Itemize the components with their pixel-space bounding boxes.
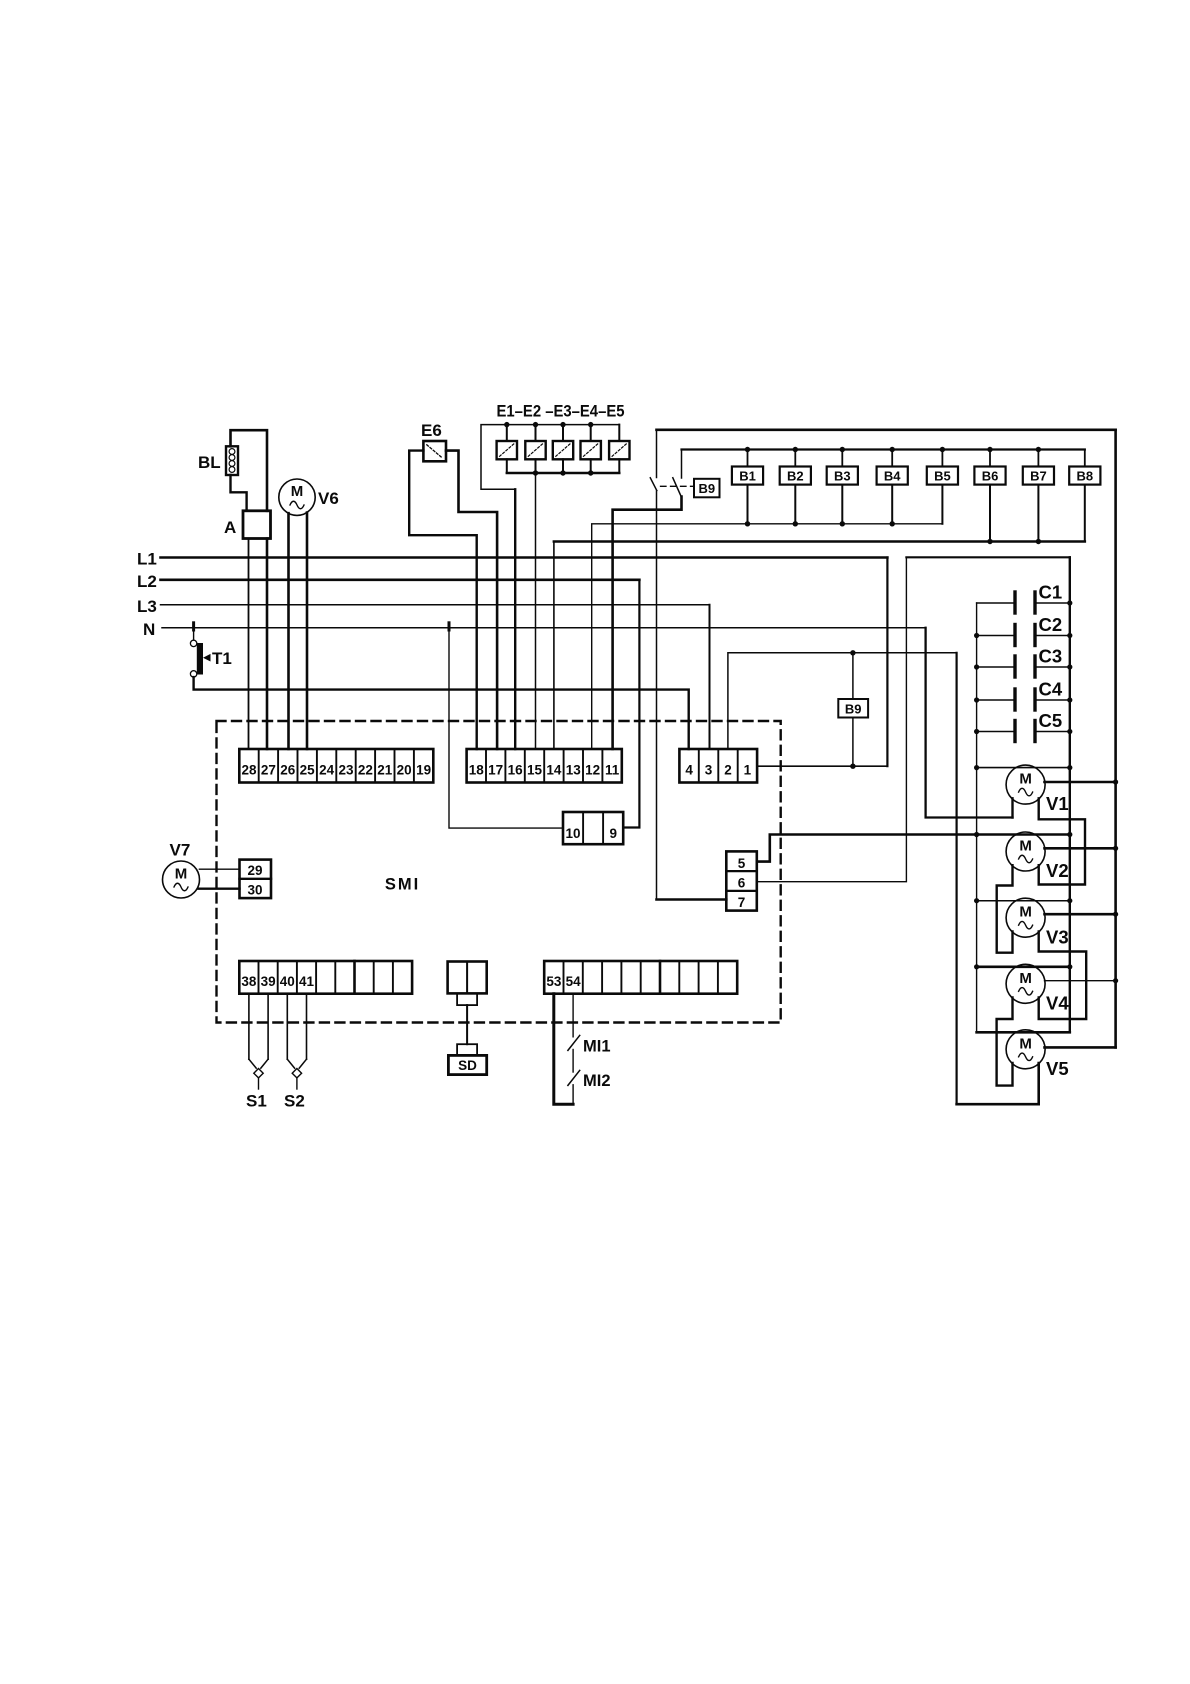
svg-text:B9: B9: [845, 701, 862, 716]
motor V7: [163, 861, 200, 898]
node B7 top bus: [1036, 447, 1041, 452]
node B3 lower bus: [840, 521, 845, 526]
wire B6-B8 bus to terminal 14: [554, 540, 1085, 543]
svg-text:19: 19: [416, 763, 431, 778]
node V2 right rail: [1113, 846, 1118, 851]
wire E3 top stub: [562, 425, 564, 441]
sensor B9 lower: [838, 699, 868, 718]
wire B1 top stub: [747, 450, 749, 467]
wire B bus top rail: [682, 448, 1085, 450]
svg-text:M: M: [1019, 771, 1032, 788]
svg-text:E1–E2 –E3–E4–E5: E1–E2 –E3–E4–E5: [497, 402, 625, 421]
wire L3: [161, 604, 710, 606]
svg-text:A: A: [224, 518, 236, 537]
sensor SD: [448, 1055, 486, 1074]
plug upper SD: [457, 993, 477, 1005]
node E3 top: [560, 422, 565, 427]
svg-text:4: 4: [685, 763, 693, 778]
motor V2: [1006, 832, 1045, 871]
wire B8 top stub: [1084, 450, 1086, 467]
terminal block terminals 38-41: [239, 961, 412, 994]
relay A: [243, 511, 271, 539]
wire terminal 41 down: [306, 994, 308, 1059]
svg-text:M: M: [291, 483, 304, 500]
svg-text:V3: V3: [1046, 926, 1069, 947]
wire capacitor right bus: [1069, 557, 1071, 1032]
sensor B7: [1023, 467, 1054, 485]
wire V6 to terminal 26: [287, 513, 290, 749]
wire BL bottom to A: [231, 475, 247, 511]
svg-text:14: 14: [546, 763, 562, 778]
connector block above SD: [448, 962, 487, 994]
svg-text:21: 21: [377, 763, 393, 778]
svg-text:S1: S1: [246, 1092, 267, 1111]
wire terminal 38 down: [248, 994, 250, 1059]
wire outer right rail: [1114, 430, 1117, 1048]
svg-text:1: 1: [744, 763, 752, 778]
wire E2 bottom stub: [535, 459, 537, 473]
wire B4 top stub: [891, 450, 893, 467]
node V2 rail left: [974, 832, 979, 837]
wire terminal 53 down: [554, 994, 573, 1104]
node E2 bottom: [533, 470, 538, 475]
wire V5 right lead: [1045, 1046, 1116, 1049]
wire E4 top stub: [590, 425, 592, 441]
wire B5 bottom stub: [941, 485, 943, 524]
wire V4 right lead: [1045, 980, 1116, 982]
wire V5 top rail: [977, 1031, 1070, 1034]
wire L3 down to terminal 3: [709, 605, 711, 749]
wire E1 bottom stub: [506, 459, 508, 473]
sensor B4: [877, 467, 908, 485]
motor V1: [1006, 765, 1045, 804]
svg-text:C2: C2: [1039, 614, 1063, 635]
wire L2 down to box 9: [623, 580, 639, 828]
wire B1-B5 bus to terminal 12: [592, 524, 943, 749]
svg-text:22: 22: [358, 763, 373, 778]
wire V3 right lead: [1045, 913, 1116, 916]
wire E3 bottom stub: [562, 459, 564, 473]
switch B9 label box: [694, 479, 720, 498]
wire pole B to terminal 11: [613, 497, 682, 750]
svg-text:MI1: MI1: [583, 1038, 611, 1056]
svg-text:B5: B5: [934, 469, 951, 484]
svg-text:V2: V2: [1046, 860, 1069, 881]
wire capacitor left bus: [976, 603, 978, 1032]
linkage B9 dashes: [661, 485, 693, 487]
svg-text:16: 16: [508, 763, 524, 778]
svg-text:B1: B1: [739, 469, 756, 484]
svg-text:V1: V1: [1046, 793, 1069, 814]
plug lower SD: [457, 1044, 477, 1055]
contact MI1: [568, 1035, 580, 1050]
thermal cutout T1: [190, 640, 210, 677]
node C5 right bus: [1067, 729, 1072, 734]
contact MI2: [568, 1070, 580, 1085]
svg-text:V5: V5: [1046, 1058, 1069, 1079]
svg-text:B3: B3: [834, 469, 851, 484]
svg-text:M: M: [1019, 838, 1032, 855]
motor V3: [1006, 898, 1045, 937]
sensor E3: [553, 441, 573, 459]
svg-text:9: 9: [609, 826, 617, 841]
node C3 left bus: [974, 664, 979, 669]
svg-text:SD: SD: [458, 1058, 477, 1073]
wire V1 right leg chain to V2: [1039, 798, 1085, 884]
terminal block 5-6-7: [726, 851, 757, 910]
wire switch pole A down to terminal 7: [656, 491, 658, 900]
wire N down and across to V1 leg: [926, 628, 1013, 818]
wire terminal 1 to L1 drop: [758, 765, 887, 767]
svg-text:T1: T1: [212, 649, 232, 668]
svg-text:12: 12: [585, 763, 600, 778]
wire N tap down to contact T1: [193, 628, 195, 640]
wire inner left down to terminal 6: [757, 557, 907, 881]
node B6 lower bus: [987, 539, 992, 544]
svg-text:MI2: MI2: [583, 1072, 611, 1090]
wire E bottom bus: [507, 472, 620, 474]
svg-text:B6: B6: [982, 469, 999, 484]
wire V7 to 29: [199, 868, 239, 870]
capacitor C2: [977, 625, 1070, 646]
wire E6 left to terminal 18: [409, 451, 477, 749]
wire terminal 5 up to V2 rail: [757, 835, 1070, 862]
node V4 rail right: [1067, 964, 1072, 969]
svg-text:N: N: [143, 620, 155, 639]
node E3 bottom: [560, 470, 565, 475]
wire E1 top stub: [506, 425, 508, 441]
wire B2 bottom stub: [794, 485, 796, 524]
terminal block terminals 4-1: [679, 749, 757, 783]
node B6 top bus: [987, 447, 992, 452]
node B9 top tap: [850, 650, 855, 655]
sensor B3: [827, 467, 858, 485]
node C2 right bus: [1067, 633, 1072, 638]
contact B9 pole B arm: [673, 478, 682, 498]
sensor E1: [497, 441, 517, 459]
node C4 left bus: [974, 697, 979, 702]
svg-text:M: M: [1019, 970, 1032, 987]
wire terminal 2 up and right: [728, 653, 957, 749]
motor V4: [1006, 964, 1045, 1003]
svg-text:7: 7: [738, 895, 746, 910]
sensor B6: [974, 467, 1005, 485]
node B2 top bus: [793, 447, 798, 452]
node B1 lower bus: [745, 521, 750, 526]
motor V5: [1006, 1030, 1045, 1069]
heater element BL: [226, 446, 238, 475]
terminal block 29-30: [240, 860, 272, 899]
svg-text:41: 41: [299, 974, 315, 989]
terminal block terminals 53-54: [544, 961, 737, 994]
svg-text:B9: B9: [698, 481, 715, 496]
svg-text:V7: V7: [170, 841, 191, 860]
wire E5 top stub: [618, 425, 620, 441]
wire B1 bottom stub: [747, 485, 749, 524]
wire B9 upper lead: [852, 653, 854, 699]
wire B7 top stub: [1037, 450, 1039, 467]
svg-text:39: 39: [261, 974, 276, 989]
node B1 top bus: [745, 447, 750, 452]
svg-text:C3: C3: [1039, 646, 1063, 667]
svg-text:54: 54: [566, 974, 582, 989]
wire V3 right leg chain to V4: [1039, 931, 1087, 1019]
svg-text:40: 40: [280, 974, 295, 989]
terminal block terminals 18-11: [467, 749, 622, 783]
node B3 top bus: [840, 447, 845, 452]
wire switch pole upper: [656, 430, 658, 478]
sensor E6: [423, 441, 446, 461]
sensor B8: [1069, 467, 1100, 485]
fuse/lamp BL top feed wire: [231, 430, 268, 511]
svg-text:BL: BL: [198, 453, 221, 472]
wire A to terminal 28: [248, 539, 250, 750]
svg-text:20: 20: [397, 763, 412, 778]
svg-text:10: 10: [565, 826, 580, 841]
node N tap at x449: [448, 623, 451, 630]
wire L1 down to terminal 1: [886, 558, 888, 767]
node V3 right rail: [1113, 912, 1118, 917]
wire E bus to terminal 15: [535, 473, 537, 749]
sensor E4: [581, 441, 601, 459]
node V3 rail right: [1067, 898, 1072, 903]
wire V1 right lead: [1045, 781, 1116, 784]
wire V3 top rail: [977, 900, 1070, 902]
wire B4 bottom stub: [891, 485, 893, 524]
svg-text:13: 13: [566, 763, 582, 778]
node E4 bottom: [588, 470, 593, 475]
node V1 rail left: [974, 765, 979, 770]
node C5 left bus: [974, 729, 979, 734]
wire E2 top stub: [535, 425, 537, 441]
wire B8 bottom stub: [1084, 485, 1086, 542]
svg-text:L3: L3: [137, 597, 157, 616]
node C3 right bus: [1067, 664, 1072, 669]
svg-text:24: 24: [319, 763, 335, 778]
wire B7 bottom stub: [1037, 485, 1039, 542]
node V1 rail right: [1067, 765, 1072, 770]
wire T1 return to terminal 4: [194, 677, 689, 749]
wire V1 top rail: [977, 767, 1070, 769]
capacitor C1: [977, 592, 1070, 613]
switch S1: [249, 1059, 268, 1089]
svg-text:18: 18: [469, 763, 485, 778]
node E2 top: [533, 422, 538, 427]
terminal block terminals 28-19: [239, 749, 433, 783]
wire outer top rail: [657, 428, 1116, 431]
wire terminal 54 lower: [572, 1085, 574, 1104]
wire L2: [161, 578, 640, 581]
svg-text:V6: V6: [318, 489, 339, 508]
wire V7 to 30: [199, 888, 240, 890]
svg-text:M: M: [1019, 904, 1032, 921]
wire B9 lower lead: [852, 718, 854, 767]
node E1 top: [504, 422, 509, 427]
svg-text:B7: B7: [1030, 469, 1047, 484]
svg-text:M: M: [175, 866, 188, 883]
svg-text:L1: L1: [137, 550, 157, 569]
sensor E5: [609, 441, 629, 459]
wire E4 bottom stub: [590, 459, 592, 473]
wire N: [162, 627, 926, 629]
wire V5 right leg to common: [957, 1063, 1039, 1104]
capacitor C3: [977, 656, 1070, 677]
switch S2: [287, 1059, 306, 1089]
svg-text:38: 38: [241, 974, 257, 989]
svg-text:25: 25: [300, 763, 316, 778]
svg-text:C1: C1: [1039, 582, 1063, 603]
motor V6: [279, 479, 315, 515]
wire V1 left leg: [1011, 798, 1013, 817]
wire terminal 40 down: [286, 994, 288, 1059]
contact B9 pole A: [650, 478, 657, 491]
sensor B5: [927, 467, 958, 485]
wire N tap to box 10: [449, 628, 563, 828]
node C2 left bus: [974, 633, 979, 638]
node T1 tap on N: [192, 623, 195, 630]
svg-text:23: 23: [338, 763, 354, 778]
svg-text:29: 29: [247, 863, 262, 878]
capacitor C5: [977, 721, 1070, 742]
capacitor C4: [977, 689, 1070, 710]
svg-text:M: M: [1019, 1035, 1032, 1052]
node E4 top: [588, 422, 593, 427]
wire B3 top stub: [841, 450, 843, 467]
node C1 right bus: [1067, 600, 1072, 605]
wire B6 top stub: [989, 450, 991, 467]
wire A to terminal 27: [266, 539, 269, 750]
wire E top bus to terminal 16: [481, 425, 619, 490]
node B7 lower bus: [1036, 539, 1041, 544]
svg-text:15: 15: [527, 763, 543, 778]
svg-text:SMI: SMI: [385, 876, 420, 894]
wire terminal 39 down: [267, 994, 269, 1059]
svg-text:27: 27: [261, 763, 276, 778]
svg-text:V4: V4: [1046, 992, 1069, 1013]
wire terminal 54 upper: [572, 994, 574, 1037]
sensor B2: [780, 467, 811, 485]
svg-text:S2: S2: [284, 1092, 305, 1111]
svg-text:B2: B2: [787, 469, 804, 484]
svg-text:C4: C4: [1039, 679, 1063, 700]
svg-text:E6: E6: [421, 421, 442, 440]
node V4 rail left: [974, 964, 979, 969]
node B5 top bus: [940, 447, 945, 452]
wire B2 top stub: [794, 450, 796, 467]
wire E6 right to terminal 17: [446, 451, 497, 749]
wire common down right side: [955, 653, 957, 1104]
node C4 right bus: [1067, 697, 1072, 702]
wire terminal 54 middle: [572, 1050, 574, 1073]
svg-text:53: 53: [546, 974, 562, 989]
svg-text:L2: L2: [137, 572, 157, 591]
svg-text:28: 28: [241, 763, 257, 778]
svg-text:B4: B4: [884, 469, 901, 484]
wire V2 right lead: [1045, 847, 1116, 850]
svg-text:26: 26: [280, 763, 296, 778]
node B4 top bus: [890, 447, 895, 452]
wire B6 bottom stub: [989, 485, 991, 542]
svg-text:3: 3: [705, 763, 713, 778]
node V1 right rail: [1113, 779, 1118, 784]
node V3 rail left: [974, 898, 979, 903]
wire pole B upper stub: [681, 450, 683, 479]
wire V4 left leg chain to V5: [997, 998, 1013, 1086]
wire L1: [161, 556, 888, 559]
node B4 lower bus: [890, 521, 895, 526]
wire SD cable: [466, 1005, 468, 1044]
wire inner box top rail: [906, 556, 1069, 558]
svg-text:B8: B8: [1076, 469, 1093, 484]
node V4 right rail: [1113, 978, 1118, 983]
wire V2 left leg chain to V3: [997, 865, 1013, 953]
sensor B1: [732, 467, 763, 485]
svg-text:11: 11: [605, 763, 620, 778]
SMI control unit dashed outline: [217, 721, 781, 1023]
svg-text:5: 5: [738, 856, 746, 871]
node B9 tap on terminal1 wire: [850, 764, 855, 769]
svg-text:30: 30: [247, 883, 262, 898]
wire V6 to terminal 25: [306, 513, 309, 749]
node B2 lower bus: [793, 521, 798, 526]
terminal block terminals 10-9: [563, 812, 623, 844]
sensor E2: [525, 441, 545, 459]
wire terminal 7 feed: [657, 898, 727, 901]
wire E5 bottom stub: [618, 459, 620, 473]
svg-text:C5: C5: [1039, 710, 1063, 731]
wire V4 top rail: [977, 965, 1070, 968]
wire B5 top stub: [941, 450, 943, 467]
svg-text:17: 17: [488, 763, 503, 778]
svg-text:2: 2: [724, 763, 732, 778]
wire B3 bottom stub: [841, 485, 843, 524]
svg-text:6: 6: [738, 876, 746, 891]
node V2 rail right: [1067, 832, 1072, 837]
